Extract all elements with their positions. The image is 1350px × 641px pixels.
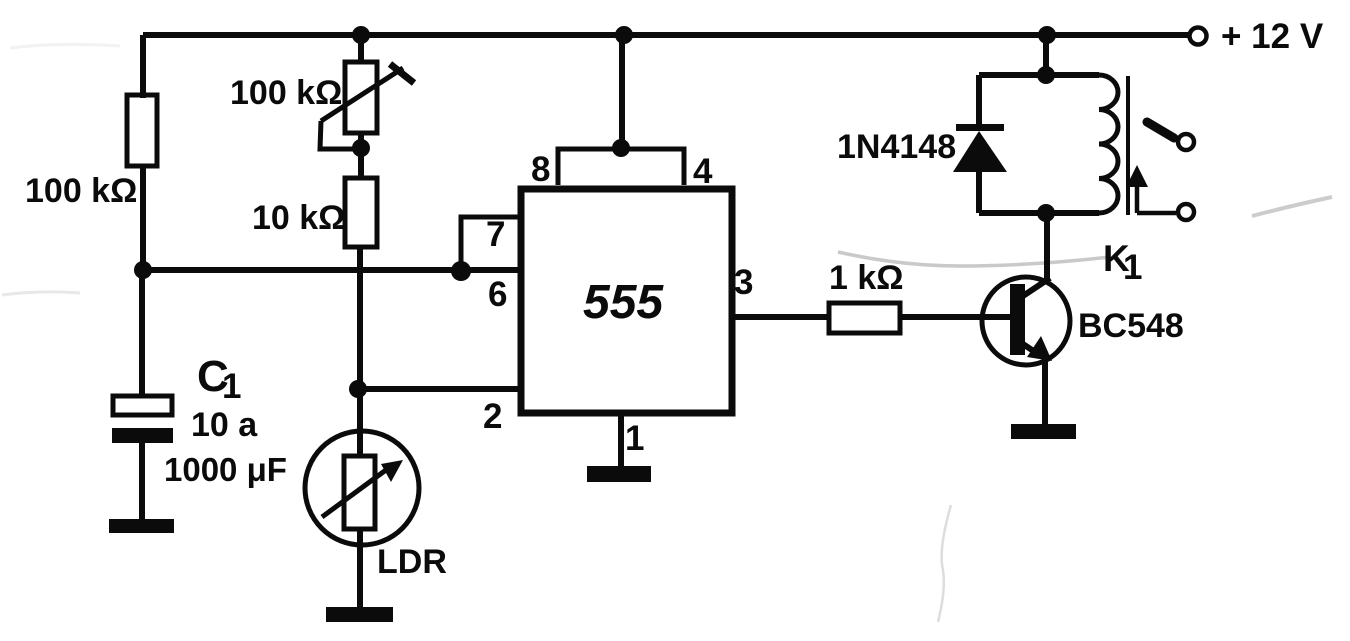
svg-text:1 kΩ: 1 kΩ xyxy=(829,259,904,297)
wire pin2 horizontal (LDR node to 555) xyxy=(358,386,521,392)
wire top +12V rail xyxy=(143,32,1189,38)
wire relay top horizontal xyxy=(979,72,1099,78)
diode D1 1N4148 xyxy=(953,75,1007,213)
resistor R3 1k xyxy=(829,303,900,333)
wire rail to bracket xyxy=(619,35,625,149)
svg-text:4: 4 xyxy=(693,152,713,191)
wire R1 bottom to node xyxy=(140,166,146,270)
resistor R 100k left xyxy=(127,95,157,166)
relay K1 switch lever xyxy=(1147,122,1174,138)
wire LDR to ground xyxy=(357,529,363,609)
svg-text:100 kΩ: 100 kΩ xyxy=(25,172,137,210)
svg-text:LDR: LDR xyxy=(377,543,447,581)
ground (LDR) xyxy=(326,607,393,622)
supply terminal +12V xyxy=(1190,28,1207,45)
svg-text:10 kΩ: 10 kΩ xyxy=(252,199,345,237)
wire C1 to ground xyxy=(139,443,145,521)
wire emitter to ground xyxy=(1042,358,1048,426)
wire pot branch top (rail to P1) xyxy=(358,35,364,64)
node junction dot relay bottom xyxy=(1037,204,1055,222)
wire R3 to base Q1 xyxy=(900,314,1012,320)
wire pin7 bracket xyxy=(461,217,521,271)
svg-text:555: 555 xyxy=(583,276,664,329)
node junction dot LDR / pin2 wire xyxy=(349,380,367,398)
transistor Q1 BC548 xyxy=(982,277,1070,365)
wire pin6 horizontal (node to 555) xyxy=(143,267,521,273)
resistor R2 10k xyxy=(345,178,377,247)
wire pin8-pin4 bracket xyxy=(558,149,684,185)
wire pin1 to ground xyxy=(618,413,624,468)
svg-text:1N4148: 1N4148 xyxy=(837,128,956,166)
wire pot bottom to node xyxy=(358,133,364,178)
node junction dot rail/555 pin8-4 drop xyxy=(615,26,633,44)
IC U1 555 timer body xyxy=(521,189,732,413)
svg-text:1: 1 xyxy=(222,367,241,406)
wire node to capacitor C1 xyxy=(139,270,145,398)
svg-text:BC548: BC548 xyxy=(1078,307,1184,345)
svg-text:100 kΩ: 100 kΩ xyxy=(230,74,342,112)
capacitor C1 xyxy=(112,396,173,443)
node junction dot pot wiper xyxy=(352,139,370,157)
wire pin3 to R3 xyxy=(732,314,831,320)
relay K1 core bar xyxy=(1126,76,1130,215)
node junction dot pin7/pin6 xyxy=(451,261,471,281)
wire rail to relay top xyxy=(1043,35,1049,75)
node junction dot rail/relay drop xyxy=(1038,26,1056,44)
relay K1 top contact terminal xyxy=(1178,134,1194,150)
potentiometer P1 100k xyxy=(320,62,414,149)
wire left branch top (rail to R1) xyxy=(140,35,146,98)
ground (C1) xyxy=(109,519,174,533)
svg-text:1: 1 xyxy=(625,419,644,458)
ground (555 pin1) xyxy=(587,466,651,482)
relay K1 actuation arrow xyxy=(1126,165,1176,213)
svg-text:3: 3 xyxy=(734,263,753,302)
LDR xyxy=(305,431,419,545)
wire relay bottom horizontal xyxy=(979,210,1099,216)
wire R2 bottom down to LDR node xyxy=(357,247,363,389)
node junction dot bracket xyxy=(612,139,630,157)
svg-text:1: 1 xyxy=(1123,248,1142,287)
svg-text:8: 8 xyxy=(531,150,550,189)
svg-text:10 a: 10 a xyxy=(191,406,258,444)
wire node to LDR xyxy=(357,389,363,456)
node junction dot relay top xyxy=(1037,66,1055,84)
svg-text:6: 6 xyxy=(488,275,507,314)
node junction dot rail/pot branch xyxy=(352,26,370,44)
svg-text:7: 7 xyxy=(486,215,505,254)
node junction dot left branch / pin6 wire xyxy=(134,261,152,279)
relay K1 coil xyxy=(1099,75,1118,213)
svg-text:1000 μF: 1000 μF xyxy=(164,451,287,488)
wire collector up to relay xyxy=(1044,212,1050,282)
relay K1 bottom contact terminal xyxy=(1178,204,1194,220)
svg-text:2: 2 xyxy=(483,397,502,436)
svg-text:+ 12 V: + 12 V xyxy=(1221,17,1324,56)
ground (Q1 emitter) xyxy=(1011,424,1076,439)
